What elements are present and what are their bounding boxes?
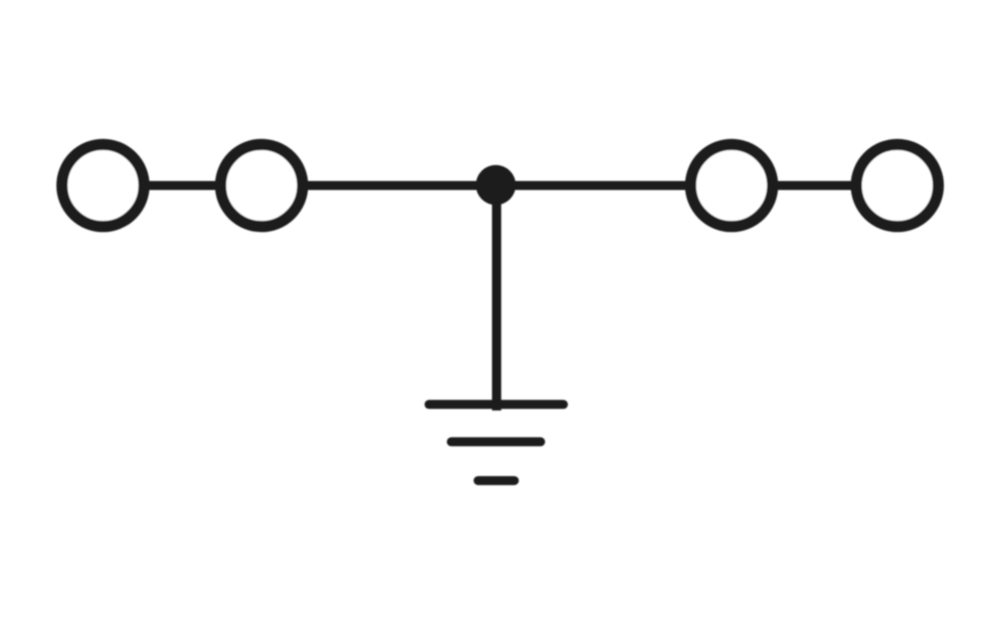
ground: earth symbol top bar [429, 400, 563, 409]
ground: earth symbol middle bar [451, 437, 540, 446]
terminal contact 1 (left outer clamping point) [62, 145, 144, 227]
terminal contact 3 (right inner clamping point) [691, 145, 773, 227]
node: junction dot connecting bus to earth conductor [476, 165, 516, 205]
wire: main horizontal bus from terminal 1 through junction to terminal 4 [103, 181, 897, 190]
terminal contact 2 (left inner clamping point) [221, 145, 303, 227]
ground: earth symbol bottom bar [478, 476, 514, 485]
terminal contact 4 (right outer clamping point) [856, 145, 938, 227]
wire: vertical drop from junction to earth symbol [492, 186, 501, 411]
